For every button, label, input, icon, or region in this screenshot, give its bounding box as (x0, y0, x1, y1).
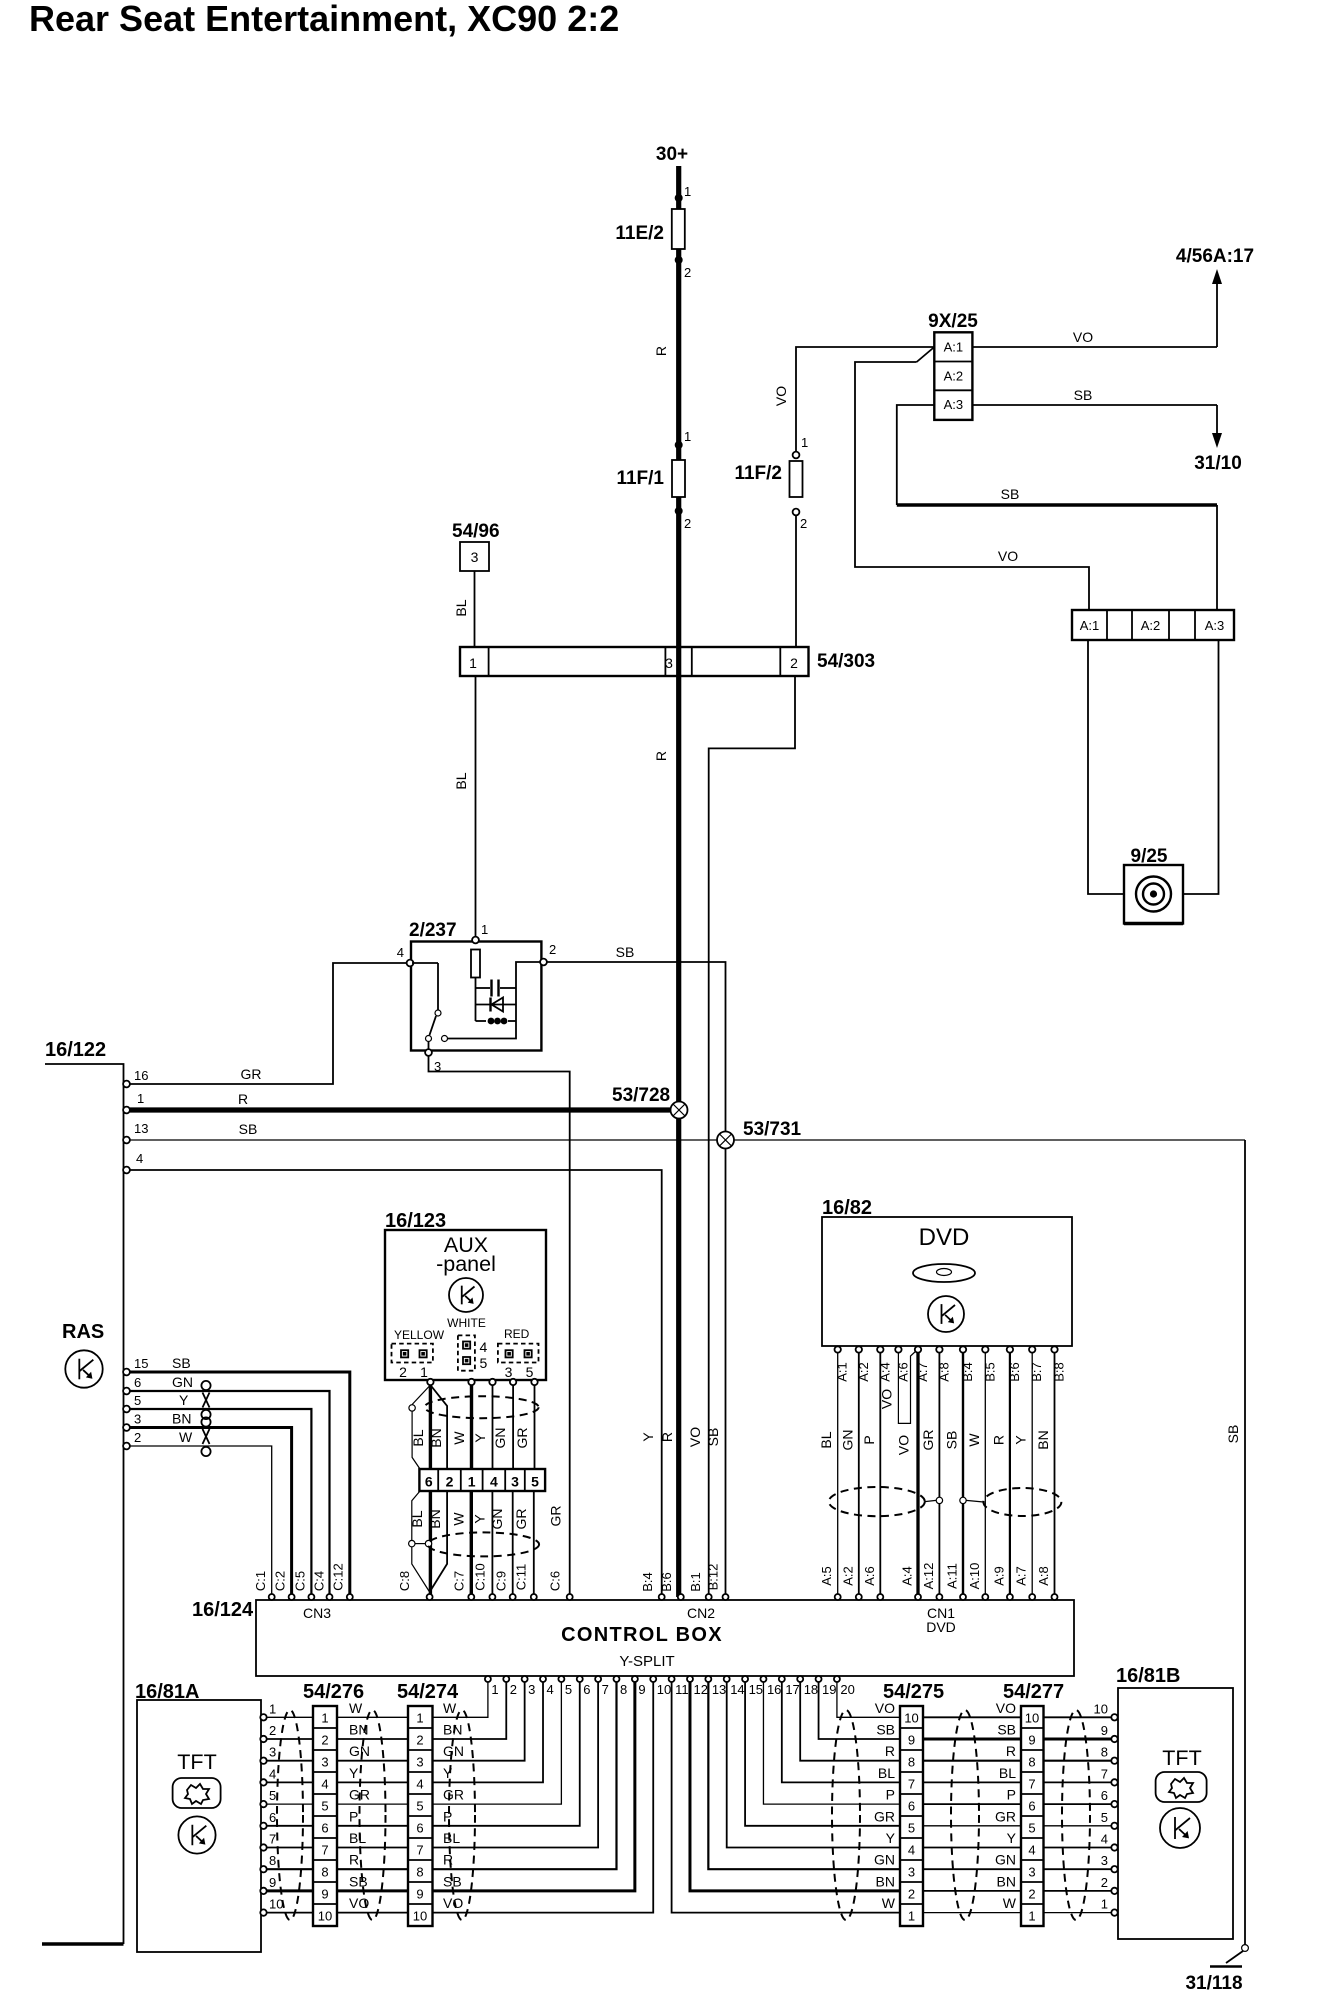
wire W Y-SPLIT pin 1 row (433, 1682, 488, 1717)
wire R 54/277 to TFT-B pin 8 (1044, 1760, 1112, 1762)
svg-text:10: 10 (657, 1682, 671, 1697)
wire SB 9X/25 A:3 to 31/10 (972, 404, 1217, 406)
svg-text:16/123: 16/123 (385, 1210, 446, 1232)
svg-text:4: 4 (321, 1777, 328, 1792)
wire SB 9X/25 A:3 to antenna connector A:3 (897, 405, 935, 505)
svg-text:31/118: 31/118 (1185, 1973, 1242, 1994)
wire Y AUX to strip cell 4 (492, 1385, 494, 1469)
wire GR 54/275 to 54/277 (923, 1825, 1021, 1827)
wire P Y-SPLIT pin 6 row (433, 1682, 580, 1826)
node 4/56A:17 arrow (1216, 280, 1218, 347)
svg-text:TFT: TFT (1162, 1746, 1201, 1770)
svg-text:2: 2 (790, 655, 798, 671)
wire TFT-A pin 8 to 54/276 (267, 1868, 313, 1870)
svg-text:W: W (966, 1433, 982, 1447)
svg-text:1: 1 (908, 1909, 915, 1924)
fuse 11F/2 (790, 461, 803, 497)
svg-text:1: 1 (481, 922, 488, 937)
wire Y Y-SPLIT pin 4 row (433, 1682, 544, 1782)
wire VO 54/277 to TFT-B pin 10 (1044, 1716, 1112, 1718)
svg-text:5: 5 (526, 1364, 534, 1380)
svg-text:Y: Y (1007, 1830, 1017, 1846)
wire P 54/276 to 54/274 (337, 1825, 408, 1827)
svg-text:2: 2 (416, 1733, 423, 1748)
svg-text:4: 4 (1028, 1843, 1035, 1858)
svg-text:BL: BL (453, 772, 469, 789)
svg-text:C:4: C:4 (312, 1571, 327, 1591)
control box CN3 pins (269, 1594, 275, 1600)
svg-text:7: 7 (1101, 1766, 1108, 1781)
wire GR 54/276 to 54/274 (337, 1803, 408, 1805)
svg-text:1: 1 (468, 1474, 476, 1490)
wire GR relay pin 3 to control box C:6 (429, 1056, 570, 1597)
svg-text:1: 1 (269, 1701, 276, 1716)
pin 3 AUX red (510, 1379, 516, 1385)
svg-text:16/82: 16/82 (822, 1197, 872, 1219)
pin B:4 DVD (960, 1346, 966, 1352)
svg-text:8: 8 (908, 1755, 915, 1770)
svg-text:B:4: B:4 (640, 1572, 655, 1592)
svg-text:7: 7 (321, 1843, 328, 1858)
svg-text:BN: BN (997, 1873, 1016, 1889)
svg-text:15: 15 (134, 1356, 148, 1371)
svg-text:6: 6 (416, 1821, 423, 1836)
wire VO 9X/25 A:1 to antenna connector A:1 (855, 362, 1089, 610)
svg-text:DVD: DVD (926, 1619, 956, 1635)
svg-text:A:3: A:3 (944, 397, 964, 412)
svg-text:GR: GR (513, 1509, 529, 1530)
screen ellipse DVD left (829, 1487, 925, 1516)
TFT left screen symbol (173, 1778, 221, 1808)
svg-text:R: R (238, 1091, 248, 1107)
svg-text:2/237: 2/237 (409, 920, 457, 941)
wire BL 54/276 to 54/274 (337, 1847, 408, 1849)
svg-text:A:10: A:10 (967, 1563, 982, 1590)
svg-text:12: 12 (693, 1682, 707, 1697)
svg-text:11: 11 (675, 1682, 689, 1697)
svg-text:4: 4 (1101, 1832, 1108, 1847)
wire GR DVD A:8 to control box A:12 (938, 1353, 940, 1597)
wire antenna connector A:1 to 9/25 (1088, 640, 1124, 894)
svg-text:10: 10 (413, 1909, 427, 1924)
wire antenna connector A:3 to 9/25 (1183, 640, 1219, 894)
svg-text:C:11: C:11 (514, 1564, 529, 1591)
svg-text:19: 19 (822, 1682, 836, 1697)
control box CN1 pins (835, 1594, 841, 1600)
wire SB Y-SPLIT pin 9 row (433, 1682, 635, 1891)
svg-text:B:6: B:6 (659, 1572, 674, 1592)
relay internal rail right (448, 962, 541, 1039)
svg-text:3: 3 (528, 1682, 535, 1697)
wire Y DVD B:7 to control box A:7 (1031, 1353, 1033, 1597)
svg-text:1: 1 (469, 655, 477, 671)
pin 1 relay 2/237 (472, 937, 479, 944)
wire SB Y-SPLIT pin 12 row (690, 1682, 900, 1891)
svg-text:54/303: 54/303 (817, 651, 875, 672)
svg-text:15: 15 (749, 1682, 763, 1697)
svg-text:GN: GN (349, 1743, 370, 1759)
svg-text:C:1: C:1 (253, 1571, 268, 1591)
svg-text:5: 5 (908, 1821, 915, 1836)
svg-text:2: 2 (134, 1430, 141, 1445)
twisted pair symbol GN-Y (201, 1381, 210, 1390)
svg-text:C:2: C:2 (273, 1571, 288, 1591)
svg-text:BN: BN (427, 1509, 443, 1528)
svg-text:C:6: C:6 (548, 1571, 563, 1591)
wire GN Y-SPLIT pin 18 row (800, 1682, 900, 1761)
pin A:2 DVD (856, 1346, 862, 1352)
svg-text:2: 2 (446, 1474, 454, 1490)
wire TFT-A pin 3 to 54/276 (267, 1760, 313, 1762)
wire TFT-A pin 7 to 54/276 (267, 1847, 313, 1849)
svg-text:SB: SB (944, 1431, 960, 1450)
svg-text:16/81B: 16/81B (1116, 1665, 1181, 1687)
screen ellipse AUX lower (428, 1532, 539, 1556)
wire BL 54/277 to TFT-B pin 7 (1044, 1781, 1112, 1783)
svg-text:8: 8 (321, 1865, 328, 1880)
pin 1 fuse 11E/2 (675, 194, 683, 202)
wire VO DVD A:7 to control box A:4 (916, 1353, 919, 1597)
svg-text:4: 4 (908, 1843, 915, 1858)
wire BL 54/96 to 54/303 pin 1 (474, 571, 476, 647)
svg-text:16/122: 16/122 (45, 1039, 106, 1061)
screen ellipse TFT-B 2 (951, 1710, 979, 1920)
wire W AUX to strip cell 1 (470, 1385, 473, 1469)
fuse 11F/1 (672, 460, 685, 497)
svg-text:6: 6 (1101, 1788, 1108, 1803)
svg-text:16: 16 (134, 1068, 148, 1083)
wire W 54/276 to 54/274 (337, 1716, 408, 1718)
wire GN strip to control box C:9 (512, 1491, 514, 1594)
svg-text:BN: BN (876, 1873, 895, 1889)
pin 2 relay 2/237 (540, 959, 547, 966)
svg-text:SB: SB (239, 1121, 258, 1137)
shield drain AUX lower (412, 1491, 420, 1540)
svg-text:W: W (451, 1512, 467, 1526)
wire Y 54/275 to 54/277 (923, 1847, 1021, 1849)
pin 1 fuse 11F/1 (675, 441, 683, 449)
wire R 54/275 to 54/277 (923, 1760, 1021, 1762)
svg-text:CONTROL BOX: CONTROL BOX (561, 1624, 723, 1646)
wire W Y-SPLIT pin 20 row (837, 1682, 900, 1717)
relay diode (476, 1004, 517, 1006)
svg-text:A:11: A:11 (945, 1563, 960, 1589)
svg-text:6: 6 (583, 1682, 590, 1697)
svg-text:2: 2 (321, 1733, 328, 1748)
svg-text:4/56A:17: 4/56A:17 (1176, 246, 1254, 267)
svg-text:31/10: 31/10 (1194, 453, 1242, 474)
screen drain to GR wire (925, 1500, 936, 1501)
wire Y strip to control box C:10 (491, 1491, 493, 1594)
wire BN DVD B:8 to control box A:8 (1054, 1353, 1056, 1597)
svg-text:Y: Y (886, 1830, 896, 1846)
wire Y 54/276 to 54/274 (337, 1781, 408, 1783)
svg-text:BL: BL (443, 1830, 460, 1846)
svg-text:P: P (886, 1787, 895, 1803)
svg-text:16: 16 (767, 1682, 781, 1697)
screen ellipse DVD right (983, 1488, 1061, 1516)
wire Y Y-SPLIT pin 17 row (782, 1682, 900, 1782)
svg-text:1: 1 (684, 429, 691, 444)
pin B:5 DVD (982, 1346, 988, 1352)
connector antenna A:1-A:3 (1072, 610, 1234, 640)
svg-text:10: 10 (1094, 1701, 1108, 1716)
svg-text:R: R (659, 1432, 675, 1442)
wire R Y-SPLIT pin 13 row (708, 1682, 900, 1869)
wire VO fuse 11F/2 to 54/303 pin 2 (795, 515, 797, 647)
svg-text:3: 3 (471, 549, 479, 565)
svg-text:8: 8 (1101, 1745, 1108, 1760)
pin A:1 DVD (835, 1346, 841, 1352)
svg-text:BN: BN (172, 1411, 191, 1427)
svg-text:A:7: A:7 (1014, 1566, 1029, 1586)
svg-text:20: 20 (840, 1682, 854, 1697)
svg-text:VO: VO (1073, 329, 1093, 345)
svg-text:SB: SB (1001, 486, 1020, 502)
svg-text:8: 8 (1028, 1755, 1035, 1770)
svg-text:9: 9 (638, 1682, 645, 1697)
pin 3 relay 2/237 (425, 1049, 432, 1056)
svg-text:Y: Y (640, 1432, 656, 1442)
svg-text:1: 1 (1101, 1897, 1108, 1912)
wire BN 54/275 to 54/277 (923, 1890, 1021, 1892)
svg-text:4: 4 (136, 1151, 143, 1166)
svg-text:3: 3 (269, 1745, 276, 1760)
wire VO from 9X/25 to fuse 11F/2 (796, 347, 934, 453)
svg-text:Y: Y (443, 1765, 453, 1781)
svg-text:6: 6 (321, 1821, 328, 1836)
svg-text:RAS: RAS (62, 1321, 104, 1343)
svg-text:A:1: A:1 (1080, 618, 1100, 633)
svg-text:5: 5 (1101, 1810, 1108, 1825)
svg-text:GN: GN (443, 1743, 464, 1759)
wire GR Y-SPLIT pin 16 row (763, 1682, 900, 1804)
svg-text:VO: VO (879, 1389, 895, 1409)
wire VO Y-SPLIT pin 11 row (672, 1682, 900, 1913)
svg-text:8: 8 (269, 1853, 276, 1868)
svg-text:2: 2 (549, 942, 556, 957)
svg-text:2: 2 (800, 516, 807, 531)
DVD module symbol (928, 1296, 964, 1332)
wire Y 16/122 pin 4 to control box B:4 (130, 1170, 662, 1597)
svg-text:A:2: A:2 (944, 368, 964, 383)
pin 4 AUX white (489, 1379, 495, 1385)
svg-text:1: 1 (801, 435, 808, 450)
junction 53/728 (671, 1102, 688, 1119)
svg-text:C:5: C:5 (293, 1571, 308, 1591)
svg-text:5: 5 (565, 1682, 572, 1697)
svg-text:A:12: A:12 (921, 1563, 936, 1590)
TFT left pins (260, 1714, 266, 1720)
svg-text:5: 5 (134, 1393, 141, 1408)
svg-text:BN: BN (443, 1722, 462, 1738)
pin 3 16/122 RAS wire BN (123, 1424, 130, 1431)
svg-text:30+: 30+ (656, 144, 688, 165)
svg-text:P: P (443, 1808, 452, 1824)
svg-text:10: 10 (1025, 1711, 1039, 1726)
wire TFT-A pin 2 to 54/276 (267, 1738, 313, 1740)
pin A:8 DVD (936, 1346, 942, 1352)
svg-text:5: 5 (531, 1474, 539, 1490)
svg-text:54/96: 54/96 (452, 521, 500, 542)
AUX red connector symbol (498, 1344, 539, 1363)
wire GN AUX to strip cell 3 (512, 1385, 514, 1469)
svg-text:P: P (349, 1808, 358, 1824)
svg-text:C:7: C:7 (452, 1571, 467, 1591)
svg-text:BL: BL (999, 1765, 1016, 1781)
svg-text:1: 1 (416, 1711, 423, 1726)
screen ellipse TFT-B 1 (832, 1710, 860, 1920)
ground 31/118 (1242, 1945, 1249, 1952)
wire VO 54/303 pin 2 to control box B:1 (709, 676, 795, 1597)
svg-text:TFT: TFT (177, 1750, 216, 1774)
svg-text:9: 9 (908, 1733, 915, 1748)
shield drain AUX upper (412, 1385, 430, 1405)
svg-text:3: 3 (134, 1412, 141, 1427)
svg-text:18: 18 (804, 1682, 818, 1697)
wire Y 54/277 to TFT-B pin 4 (1044, 1847, 1112, 1849)
svg-text:C:10: C:10 (473, 1563, 488, 1590)
svg-text:SB: SB (1074, 387, 1093, 403)
wire GN 54/275 to 54/277 (923, 1868, 1021, 1870)
pin 4 16/122 (123, 1167, 130, 1174)
wire VO Y-SPLIT pin 10 row (433, 1682, 654, 1913)
svg-text:7: 7 (269, 1832, 276, 1847)
svg-text:1: 1 (1028, 1909, 1035, 1924)
control box CN2 pins (659, 1594, 665, 1600)
wire VO DVD A:6 jog (898, 1351, 916, 1424)
svg-text:Y: Y (179, 1392, 189, 1408)
svg-text:11F/1: 11F/1 (616, 468, 664, 489)
wire TFT-A pin 4 to 54/276 (267, 1781, 313, 1783)
wire W strip to control box C:7 (470, 1491, 473, 1594)
wire TFT-A pin 10 to 54/276 (267, 1912, 313, 1914)
wire P 54/277 to TFT-B pin 6 (1044, 1803, 1112, 1805)
svg-text:5: 5 (1028, 1821, 1035, 1836)
svg-text:Y: Y (472, 1514, 488, 1524)
svg-text:Y: Y (1013, 1435, 1029, 1445)
svg-text:R: R (885, 1743, 895, 1759)
svg-text:BL: BL (453, 599, 469, 616)
Y-SPLIT pins 1-20 (485, 1676, 491, 1682)
svg-text:SB: SB (705, 1428, 721, 1447)
relay switch (412, 962, 438, 964)
svg-text:3: 3 (1101, 1853, 1108, 1868)
wire BN 54/277 to TFT-B pin 2 (1044, 1890, 1112, 1892)
wire GR strip to control box C:11 (533, 1491, 535, 1594)
svg-text:10: 10 (904, 1711, 918, 1726)
svg-text:R: R (443, 1852, 453, 1868)
svg-text:A:6: A:6 (895, 1362, 910, 1382)
junction 53/731 (725, 1140, 727, 1597)
wire BL DVD A:1 to control box A:5 (837, 1353, 839, 1597)
wire SB 54/277 to TFT-B pin 9 (1044, 1738, 1112, 1741)
svg-text:A:3: A:3 (1205, 618, 1225, 633)
pin 2 fuse 11E/2 (675, 256, 683, 264)
svg-text:SB: SB (1225, 1425, 1241, 1444)
pin 2 fuse 11F/2 (793, 509, 800, 516)
svg-text:2: 2 (1028, 1887, 1035, 1902)
svg-text:53/731: 53/731 (743, 1119, 802, 1140)
svg-text:2: 2 (1101, 1875, 1108, 1890)
svg-text:1: 1 (321, 1711, 328, 1726)
svg-text:WHITE: WHITE (447, 1316, 486, 1330)
wire TFT-A pin 6 to 54/276 (267, 1825, 313, 1827)
relay inductor (476, 1020, 487, 1022)
svg-text:W: W (349, 1700, 363, 1716)
svg-text:GN: GN (874, 1852, 895, 1868)
wire P 54/275 to 54/277 (923, 1803, 1021, 1805)
svg-text:GR: GR (548, 1506, 564, 1527)
svg-text:2: 2 (399, 1364, 407, 1380)
svg-text:54/277: 54/277 (1003, 1681, 1064, 1703)
svg-text:A:6: A:6 (862, 1566, 877, 1586)
svg-text:GR: GR (995, 1808, 1016, 1824)
svg-text:VO: VO (875, 1700, 895, 1716)
svg-text:GN: GN (839, 1430, 855, 1451)
DVD disc symbol (913, 1264, 975, 1282)
screen drain to SB wire (966, 1500, 983, 1502)
svg-text:9: 9 (1028, 1733, 1035, 1748)
wire GN DVD A:2 to control box A:2 (858, 1353, 860, 1597)
connector strip AUX 6-2-1-4-3-5 (419, 1469, 545, 1491)
pin 6 16/122 RAS wire GN (123, 1388, 130, 1395)
svg-text:W: W (882, 1895, 896, 1911)
svg-text:BN: BN (428, 1428, 444, 1447)
svg-text:1: 1 (137, 1091, 144, 1106)
svg-text:5: 5 (480, 1355, 488, 1371)
relay coil resistor (471, 950, 480, 978)
svg-text:3: 3 (416, 1755, 423, 1770)
wire P Y-SPLIT pin 15 row (745, 1682, 900, 1826)
svg-text:3: 3 (665, 655, 673, 671)
svg-text:W: W (1003, 1895, 1017, 1911)
wire BL 54/303 pin 1 to relay 2/237 pin 1 (475, 676, 477, 937)
svg-text:DVD: DVD (919, 1224, 970, 1251)
wire GN Y-SPLIT pin 3 row (433, 1682, 525, 1761)
svg-text:VO: VO (773, 386, 789, 406)
svg-text:2: 2 (510, 1682, 517, 1697)
fuse 11E/2 (672, 209, 685, 249)
svg-text:9: 9 (321, 1887, 328, 1902)
AUX white connector symbol (458, 1335, 475, 1370)
svg-text:SB: SB (172, 1355, 191, 1371)
svg-text:1: 1 (684, 184, 691, 199)
screen ellipse AUX upper (425, 1396, 539, 1418)
svg-text:A:5: A:5 (819, 1566, 834, 1586)
svg-text:8: 8 (416, 1865, 423, 1880)
wire GR 54/277 to TFT-B pin 5 (1044, 1825, 1112, 1827)
wire BL 54/275 to 54/277 (923, 1781, 1021, 1783)
svg-text:9: 9 (269, 1875, 276, 1890)
svg-text:Y: Y (472, 1433, 488, 1443)
TFT right module symbol (1160, 1808, 1200, 1848)
wire SB relay pin 2 to junction 53/731 (547, 962, 726, 1131)
svg-text:A:4: A:4 (900, 1566, 915, 1586)
svg-text:16/124: 16/124 (192, 1599, 254, 1621)
svg-text:SB: SB (349, 1873, 368, 1889)
svg-text:7: 7 (416, 1843, 423, 1858)
TFT right pins (1111, 1714, 1117, 1720)
wire GR relay pin 4 to 16/122 pin 16 (130, 963, 407, 1084)
svg-text:4: 4 (269, 1766, 276, 1781)
svg-text:10: 10 (318, 1909, 332, 1924)
svg-text:BL: BL (349, 1830, 366, 1846)
svg-text:A:2: A:2 (1141, 618, 1161, 633)
svg-text:VO: VO (896, 1435, 912, 1455)
svg-text:A:2: A:2 (840, 1566, 855, 1586)
wire BN Y-SPLIT pin 19 row (819, 1682, 900, 1739)
